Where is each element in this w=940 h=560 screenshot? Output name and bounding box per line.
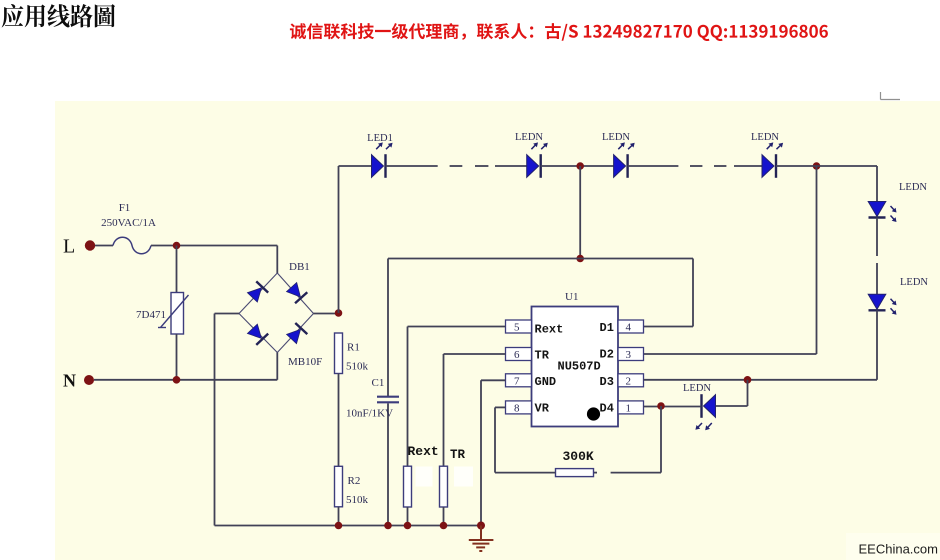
wire LED1 to LEDN (dashed) — [386, 165, 527, 167]
pin 7 box — [506, 374, 532, 387]
node LED string junction A — [576, 162, 584, 170]
node varistor/N junction — [173, 376, 181, 384]
svg-text:NU507D: NU507D — [558, 360, 601, 374]
svg-text:LED1: LED1 — [367, 133, 393, 144]
node rail Rext — [404, 522, 412, 530]
svg-text:LEDN: LEDN — [602, 132, 630, 143]
svg-text:Rext: Rext — [408, 444, 439, 459]
svg-text:GND: GND — [535, 375, 557, 389]
svg-text:4: 4 — [626, 322, 632, 334]
wire LEDN3 to LEDN4 (dashed) — [628, 165, 762, 167]
node rail TR — [440, 522, 448, 530]
resistor 300K — [556, 449, 594, 477]
wire N to bridge bottom — [94, 353, 277, 380]
svg-text:C1: C1 — [372, 377, 385, 389]
wire right column middle (with break) — [876, 218, 878, 295]
svg-text:TR: TR — [535, 349, 550, 363]
wire D4 junction down to 300K — [594, 406, 662, 473]
svg-text:300K: 300K — [563, 449, 594, 464]
node rail R2 — [335, 522, 343, 530]
node D3 junction — [744, 376, 752, 384]
node top-right junction B — [813, 162, 821, 170]
bridge diode top-left — [246, 281, 268, 303]
svg-text:6: 6 — [514, 349, 520, 361]
svg-text:D2: D2 — [600, 348, 614, 362]
header red dealer text — [290, 23, 828, 41]
node L/varistor junction — [173, 242, 181, 250]
svg-text:EEChina.com: EEChina.com — [859, 542, 938, 557]
resistor R2 510k — [335, 466, 369, 507]
wire R2 to rail — [338, 507, 340, 526]
pin-1 indicator dot — [587, 407, 600, 420]
svg-text:7: 7 — [514, 376, 520, 388]
op IC U1 NU507D — [506, 291, 644, 427]
terminal L — [63, 236, 95, 258]
wire ground rail — [215, 525, 482, 527]
node bridge plus junction — [335, 309, 343, 317]
wire right column down to D3 row — [748, 310, 878, 380]
svg-text:L: L — [63, 236, 75, 258]
svg-text:LEDN: LEDN — [900, 277, 928, 288]
svg-text:D4: D4 — [600, 402, 614, 416]
node rail GND — [477, 522, 485, 530]
wire pin 1 to D4 junction — [644, 406, 702, 408]
LED LEDN right column upper — [868, 182, 927, 222]
LED LEDN right column lower — [868, 277, 928, 315]
wire pin D2 to junction B — [644, 166, 817, 354]
svg-text:R1: R1 — [347, 342, 360, 354]
svg-text:510k: 510k — [346, 494, 369, 506]
svg-text:D1: D1 — [600, 321, 614, 335]
wire LEDN4 to right column — [776, 166, 877, 202]
svg-text:10nF/1KV: 10nF/1KV — [346, 408, 393, 420]
svg-text:Rext: Rext — [535, 323, 564, 337]
svg-text:LEDN: LEDN — [751, 132, 779, 143]
svg-text:2: 2 — [626, 376, 632, 388]
fuse F1 250VAC/1A — [101, 202, 156, 254]
svg-text:DB1: DB1 — [289, 261, 310, 273]
pin 1 box — [618, 401, 644, 414]
LED LEDN second — [515, 132, 548, 178]
pin 5 box — [506, 320, 532, 333]
LED LED1 — [367, 133, 393, 178]
svg-text:R2: R2 — [348, 475, 361, 487]
wire R1 to R2 — [338, 374, 340, 467]
bridge diode top-right — [286, 282, 308, 304]
node rail C1 — [384, 522, 392, 530]
svg-text:5: 5 — [514, 322, 520, 334]
svg-text:250VAC/1A: 250VAC/1A — [101, 217, 156, 229]
wire plus rail up to LED string — [339, 166, 372, 313]
bridge diode bottom-right — [286, 323, 308, 345]
title 应用线路圖 — [2, 4, 115, 27]
wire fuse to bridge top — [151, 246, 277, 274]
wire pin 7 GND down to rail — [481, 380, 506, 525]
svg-text:3: 3 — [626, 349, 632, 361]
svg-text:U1: U1 — [565, 291, 578, 303]
wire pin 6 to TR resistor — [444, 354, 506, 466]
svg-text:TR: TR — [450, 448, 466, 462]
pin 6 box — [506, 348, 532, 361]
LED LEDN bottom — [683, 383, 716, 430]
wire L to fuse — [95, 245, 113, 247]
node bus junction — [576, 255, 584, 263]
wire bridge minus to ground rail — [215, 314, 240, 526]
ground — [469, 526, 494, 552]
varistor 7D471 — [136, 246, 189, 380]
svg-text:8: 8 — [514, 403, 520, 415]
selection corner mark — [881, 92, 901, 100]
pin 8 box — [506, 401, 532, 414]
wire pin 5 to Rext resistor — [408, 327, 506, 467]
wire horizontal bus y258 — [388, 258, 693, 260]
svg-text:D3: D3 — [600, 375, 614, 389]
svg-text:LEDN: LEDN — [683, 383, 711, 394]
svg-text:7D471: 7D471 — [136, 309, 166, 321]
node D4 junction — [657, 402, 665, 410]
LED LEDN fourth — [751, 132, 783, 178]
capacitor C1 10nF/1KV — [346, 259, 399, 526]
svg-text:N: N — [63, 371, 76, 391]
svg-text:F1: F1 — [119, 202, 131, 214]
bridge rectifier DB1 MB10F — [239, 261, 322, 368]
resistor TR (bottom) — [440, 448, 474, 526]
wire bridge plus stub — [314, 313, 339, 315]
pin 4 box — [618, 320, 644, 333]
wire D3 junction to pin 2 — [644, 379, 748, 381]
terminal N — [63, 371, 94, 391]
wire bus to pin D1 — [644, 259, 694, 327]
wire 300K to pin 8 VR — [495, 407, 556, 472]
wire junction A down — [579, 166, 581, 259]
resistor Rext (bottom) — [404, 444, 439, 526]
pin 2 box — [618, 374, 644, 387]
svg-text:MB10F: MB10F — [288, 356, 322, 368]
LED LEDN third — [602, 132, 635, 178]
resistor R1 510k — [335, 333, 369, 374]
pin 3 box — [618, 348, 644, 361]
watermark EEChina.com — [846, 533, 940, 560]
svg-text:1: 1 — [626, 403, 632, 415]
svg-text:510k: 510k — [346, 361, 369, 373]
svg-text:LEDN: LEDN — [515, 132, 543, 143]
svg-text:VR: VR — [535, 402, 550, 416]
wire LEDN2 to LEDN3 — [541, 165, 614, 167]
svg-text:LEDN: LEDN — [899, 182, 927, 193]
bridge diode bottom-left — [246, 323, 268, 345]
wire D3 junction down to LEDN anode — [716, 380, 748, 406]
